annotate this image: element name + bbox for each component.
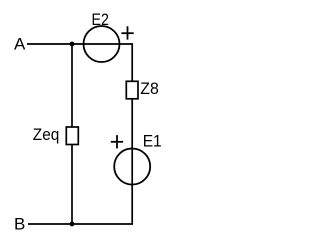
svg-text:E1: E1 (143, 132, 162, 151)
source E1 circle (114, 149, 150, 185)
svg-text:E2: E2 (92, 10, 109, 29)
plus sign of E1 (111, 135, 123, 148)
wire left vertical branch (71, 44, 73, 224)
wire top horizontal A to corner (27, 43, 133, 45)
wire bottom horizontal B to corner (28, 223, 133, 225)
plus sign of E2 (121, 26, 133, 39)
node junction dot top (70, 42, 75, 47)
source E2 circle (84, 26, 120, 62)
impedance Zeq rectangle (66, 127, 78, 145)
svg-text:B: B (14, 214, 25, 233)
svg-text:Zeq: Zeq (33, 125, 60, 144)
impedance Z8 rectangle (126, 81, 138, 99)
svg-text:A: A (14, 35, 26, 54)
wire right vertical branch (131, 44, 133, 224)
svg-text:Z8: Z8 (140, 79, 159, 98)
node junction dot bottom (70, 222, 75, 227)
